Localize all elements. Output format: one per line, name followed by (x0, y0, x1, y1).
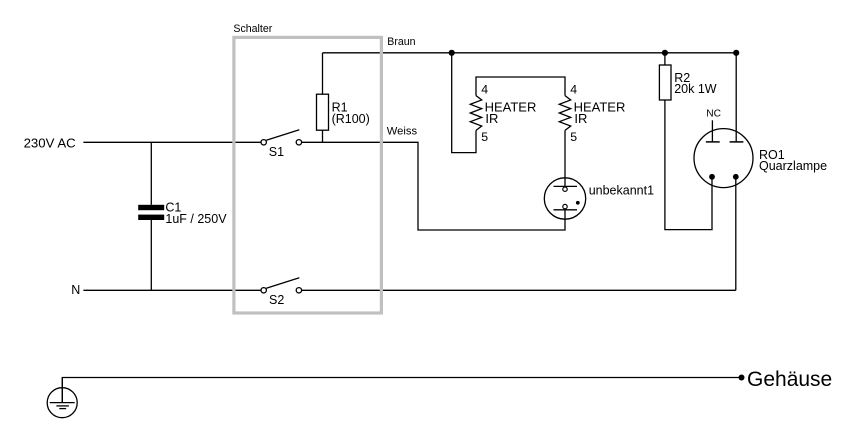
wire junction drop to heater1 bottom (452, 53, 476, 153)
svg-text:IR: IR (574, 111, 587, 126)
svg-text:4: 4 (570, 83, 577, 97)
resistor R2 (659, 65, 716, 100)
resistor HEATER IR 1 (470, 83, 536, 145)
svg-text:NC: NC (706, 108, 721, 119)
svg-text:230V AC: 230V AC (24, 136, 77, 151)
svg-text:S2: S2 (269, 293, 284, 307)
wire Braun to lamp right top pin (735, 53, 737, 142)
svg-text:5: 5 (481, 130, 488, 144)
svg-text:Schalter: Schalter (233, 23, 272, 35)
svg-text:Gehäuse: Gehäuse (747, 368, 832, 391)
svg-text:Weiss: Weiss (387, 125, 418, 137)
wire R2 top stub (664, 53, 666, 65)
wire R1 top riser (322, 53, 324, 94)
junction dot Braun/heaters (449, 50, 455, 56)
wire Braun bus (323, 52, 737, 54)
switch S2 (261, 278, 302, 307)
pin dot bottom-left (709, 174, 715, 180)
pin dot bottom-right (733, 174, 739, 180)
wire R1 bottom stub (322, 130, 324, 142)
svg-text:Quarzlampe: Quarzlampe (759, 159, 827, 173)
wire S1 to Weiss corner down to unbekannt1 bottom (302, 142, 565, 230)
wire lamp right bottom pin to N (735, 177, 737, 290)
pin bar right (730, 141, 744, 143)
pin NC stub (711, 120, 713, 142)
wire heater tops coupling (476, 77, 565, 96)
wire N bus to lamp (302, 289, 736, 291)
pin bar left (706, 141, 720, 143)
wire C1 branch top (150, 142, 152, 205)
wire 230V AC feed (83, 141, 261, 143)
svg-text:Braun: Braun (387, 36, 415, 48)
wire Gehaeuse earth run (62, 378, 741, 403)
switch S1 (261, 130, 302, 159)
wire heater2 bottom to unbekannt1 top pin (564, 130, 566, 187)
junction dot Braun/lamp (733, 50, 739, 56)
svg-text:1uF / 250V: 1uF / 250V (165, 212, 227, 226)
node Gehaeuse (739, 368, 833, 391)
enclosure box Schalter (233, 23, 381, 313)
wire C1 branch bottom (150, 220, 152, 290)
wire R2 bottom to lamp left pin (665, 100, 712, 230)
svg-text:(R100): (R100) (332, 112, 370, 126)
svg-text:5: 5 (570, 130, 577, 144)
ground protective earth (47, 378, 77, 418)
capacitor C1 (138, 201, 227, 227)
svg-text:4: 4 (481, 83, 488, 97)
svg-text:N: N (71, 283, 80, 297)
lamp RO1 (694, 108, 827, 187)
svg-text:IR: IR (485, 111, 498, 126)
connector unbekannt1 (544, 178, 654, 219)
resistor HEATER IR 2 (559, 83, 625, 145)
svg-text:20k 1W: 20k 1W (674, 82, 717, 96)
resistor R1 (317, 94, 370, 130)
svg-text:S1: S1 (269, 145, 284, 159)
wire N feed (83, 289, 261, 291)
junction dot Braun/R2 (662, 50, 668, 56)
svg-text:unbekannt1: unbekannt1 (589, 184, 654, 198)
